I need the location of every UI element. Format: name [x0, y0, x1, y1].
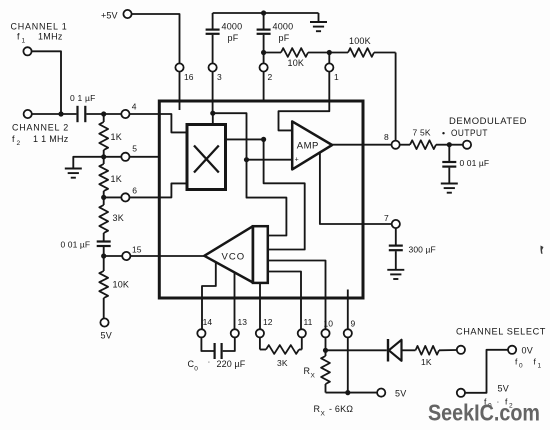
wire C2 to node E	[103, 247, 105, 256]
pin 4 terminal	[121, 110, 129, 118]
resistor R9 RX	[325, 350, 327, 356]
pin 1 terminal	[325, 63, 333, 71]
svg-text:X: X	[321, 411, 326, 418]
wire mixer out to pin2 node	[226, 138, 264, 140]
svg-text:1K: 1K	[421, 357, 432, 367]
wire pin3 node to amp input	[213, 113, 247, 160]
svg-text:9: 9	[351, 319, 356, 329]
wire pin2 node to vco	[264, 139, 305, 249]
svg-text:2: 2	[268, 72, 273, 82]
svg-text:10K: 10K	[288, 58, 305, 68]
resistor R6 100K	[329, 52, 348, 54]
top rail ground stub	[318, 13, 320, 22]
svg-text:0 01 µF: 0 01 µF	[61, 240, 91, 250]
svg-text:0V: 0V	[522, 346, 533, 356]
pin 15 terminal	[122, 252, 130, 260]
node D junction	[101, 195, 106, 200]
node G junction	[327, 50, 332, 55]
svg-text:10: 10	[324, 319, 334, 329]
pin 8 terminal	[392, 141, 400, 149]
wire channel2 to C1	[32, 113, 77, 115]
wire pin4 step to mixer	[159, 114, 187, 132]
stray mark right edge	[541, 246, 544, 255]
node E junction	[101, 253, 106, 258]
svg-text:15: 15	[132, 245, 142, 255]
capacitor C4 4000pF	[263, 13, 265, 29]
svg-text:13: 13	[238, 317, 248, 327]
svg-text:8: 8	[384, 132, 389, 142]
capacitor C1 0.1uF	[76, 106, 78, 122]
capacitor C5 0.01uF	[448, 145, 450, 161]
wire pin 9 stub	[347, 290, 349, 330]
pin 16 terminal	[175, 63, 183, 71]
terminal 0V f0 f1	[508, 346, 516, 354]
wire node G to pin 1	[328, 53, 330, 64]
svg-text:5V: 5V	[498, 384, 509, 394]
wire pin10 to node J	[325, 338, 327, 351]
wire vco to pin 12	[259, 283, 261, 329]
wire pin6 step to mixer	[159, 183, 187, 197]
svg-text:VCO: VCO	[222, 252, 246, 263]
wire node E to pin 15	[104, 255, 123, 257]
svg-text:7 5K: 7 5K	[413, 128, 431, 138]
wire pin3 node to mixer top	[210, 111, 215, 116]
capacitor C2 0.01uF	[97, 240, 111, 242]
svg-text:1: 1	[22, 38, 26, 45]
svg-text:X: X	[311, 373, 316, 380]
svg-text:·: ·	[208, 357, 211, 367]
wire pin1 into IC	[328, 72, 330, 101]
wire pin15 into IC to VCO	[130, 255, 204, 257]
wire C4 to node F	[263, 35, 265, 53]
input terminal CHANNEL 2	[24, 110, 32, 118]
wire vco to pin 14	[202, 263, 216, 330]
node J junction	[323, 348, 328, 353]
terminal 5V RX	[377, 389, 385, 397]
pin 9 terminal	[344, 329, 352, 337]
node K junction pin9 tie	[345, 390, 350, 395]
svg-text:100K: 100K	[349, 36, 371, 46]
wire pin 7	[363, 223, 392, 225]
node H junction	[447, 142, 452, 147]
svg-text:CHANNEL 2: CHANNEL 2	[12, 123, 69, 133]
svg-text:220 µF: 220 µF	[217, 359, 246, 369]
svg-text:R: R	[314, 404, 321, 414]
svg-text:11: 11	[304, 317, 313, 327]
wire C5 to ground	[448, 168, 450, 184]
wire pin9 down to node K	[347, 338, 349, 393]
svg-text:3K: 3K	[277, 358, 288, 368]
pin 6 terminal	[121, 193, 129, 201]
svg-text:CHANNEL SELECT: CHANNEL SELECT	[456, 327, 546, 337]
wire 100K feedback to pin 8	[395, 53, 397, 141]
svg-text:14: 14	[203, 317, 213, 327]
wire pin4 into IC	[130, 113, 160, 115]
svg-text:10K: 10K	[113, 280, 130, 290]
svg-text:CHANNEL 1: CHANNEL 1	[11, 22, 68, 32]
wire pin5 into IC	[130, 156, 160, 158]
svg-text:pF: pF	[279, 33, 290, 43]
wire 0V to 5V select	[465, 350, 508, 393]
output terminal DEMODULATED OUTPUT	[463, 141, 471, 149]
top rail wire	[213, 12, 319, 14]
op-amp U1b AMP	[292, 121, 332, 169]
pin 2 terminal	[260, 63, 268, 71]
svg-text:0 1 µF: 0 1 µF	[70, 93, 95, 103]
top rail junction	[261, 10, 266, 15]
svg-text:+: +	[295, 157, 299, 164]
wire RX bottom to 5V	[326, 392, 378, 394]
wire pin3 node to vco	[247, 160, 287, 236]
wire node D to pin 6	[104, 196, 122, 198]
capacitor C3 4000pF	[212, 13, 214, 29]
svg-text:SeekIC.com: SeekIC.com	[428, 400, 540, 426]
wire amp output to pin 8	[332, 144, 391, 146]
wire node H to output terminal	[449, 144, 463, 146]
svg-text:0: 0	[194, 365, 198, 372]
pin 11 terminal	[298, 329, 306, 337]
wire vco to pin 13	[234, 273, 236, 329]
wire pin6 into IC	[130, 196, 160, 198]
IC U1 package outline	[159, 101, 363, 298]
svg-text:16: 16	[184, 72, 194, 82]
resistor R1 1K	[103, 114, 105, 122]
capacitor C0 220pF between pins 14 13	[201, 338, 213, 352]
svg-text:pF: pF	[228, 33, 239, 43]
resistor R8 3K between pins 12 11	[259, 338, 261, 350]
node F junction	[261, 50, 266, 55]
svg-text:5V: 5V	[101, 331, 112, 341]
ground GND1	[65, 168, 82, 170]
svg-text:DEMODULATED: DEMODULATED	[449, 116, 527, 126]
resistor R3 3K	[103, 197, 105, 205]
pin 12 terminal	[256, 329, 264, 337]
svg-text:6: 6	[132, 186, 137, 196]
wire vco to pin 11	[268, 272, 301, 330]
svg-text:4000: 4000	[222, 22, 243, 32]
terminal 5V bias	[100, 318, 108, 326]
svg-text:+5V: +5V	[101, 11, 118, 21]
wire channel1 to node A	[32, 51, 61, 114]
wire node B to pin 4	[104, 113, 122, 115]
svg-text:1MHz: 1MHz	[38, 32, 63, 42]
svg-text:3K: 3K	[113, 213, 124, 223]
svg-text:7: 7	[384, 213, 389, 223]
wire pin2 into IC	[263, 72, 265, 101]
svg-text:5V: 5V	[395, 389, 406, 399]
pin 7 terminal	[392, 220, 400, 228]
svg-text:1: 1	[334, 72, 339, 82]
wire pin1 to amp input	[279, 101, 330, 130]
wire amp to pin 7 takeoff	[320, 153, 363, 225]
resistor R7 7.5K	[400, 144, 410, 146]
svg-text:5: 5	[132, 144, 137, 154]
svg-text:12: 12	[263, 317, 273, 327]
pin 5 terminal	[121, 153, 129, 161]
svg-text:1K: 1K	[111, 132, 122, 142]
mixer X symbol	[194, 146, 219, 173]
wire pin16 into IC stub	[179, 72, 181, 110]
svg-text:0 01 µF: 0 01 µF	[460, 158, 490, 168]
oscillator U1c VCO	[204, 226, 253, 282]
capacitor C6 300uF	[395, 228, 397, 245]
wire node C to ground	[73, 157, 103, 169]
svg-text:- 6KΩ: - 6KΩ	[329, 404, 353, 414]
wire C1 to node B	[86, 113, 103, 115]
svg-text:2: 2	[17, 140, 21, 147]
wire pin3 into IC	[212, 72, 214, 114]
node B junction	[101, 111, 106, 116]
svg-text:0: 0	[519, 363, 523, 370]
ground GND4	[387, 269, 404, 271]
svg-text:1: 1	[538, 363, 542, 370]
resistor R2 1K	[103, 157, 105, 164]
channel select left terminal	[457, 346, 465, 354]
svg-text:300 µF: 300 µF	[409, 245, 436, 255]
wire node C to pin 5	[104, 156, 122, 158]
wire node F to pin 2	[263, 53, 265, 64]
svg-text:3: 3	[217, 72, 222, 82]
ground GND3	[441, 183, 458, 185]
pin 13 terminal	[231, 329, 239, 337]
wire C3 to pin 3	[212, 35, 214, 64]
node C junction	[101, 154, 106, 159]
svg-text:1 1 MHz: 1 1 MHz	[33, 134, 69, 144]
node A junction	[58, 111, 63, 116]
wire +5V to pin 16	[132, 14, 180, 63]
mixer U1a box	[187, 125, 226, 190]
resistor R5 10K	[264, 52, 281, 54]
wire C6 to ground	[395, 251, 397, 270]
svg-text:1K: 1K	[111, 174, 122, 184]
resistor R4 10K	[103, 256, 105, 271]
svg-text:4: 4	[132, 102, 137, 112]
wire node J to diode	[326, 349, 387, 351]
supply terminal +5V	[123, 10, 131, 18]
pin 10 terminal	[321, 329, 329, 337]
wire vco to pin 10	[268, 261, 326, 330]
svg-text:R: R	[304, 366, 311, 376]
ground GND2	[310, 21, 327, 23]
resistor R10 1K	[402, 349, 416, 351]
svg-text:AMP: AMP	[297, 141, 319, 152]
terminal 5V f0 f2	[457, 389, 465, 397]
svg-text:OUTPUT: OUTPUT	[451, 128, 488, 138]
svg-text:4000: 4000	[273, 22, 294, 32]
pin 14 terminal	[197, 329, 205, 337]
diode D1	[387, 339, 389, 362]
input terminal CHANNEL 1	[23, 47, 31, 55]
pin 3 terminal	[209, 63, 217, 71]
